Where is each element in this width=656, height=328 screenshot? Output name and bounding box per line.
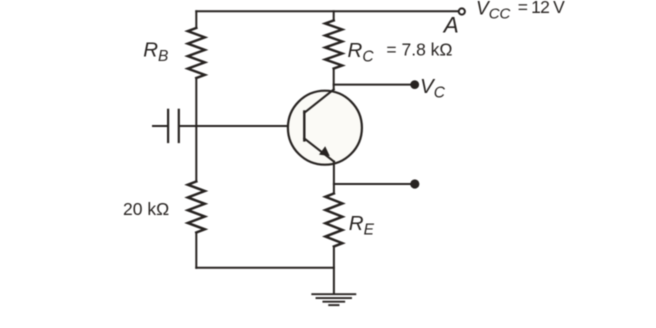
node VC terminal (dot) bbox=[410, 80, 419, 89]
wire bottom rail bbox=[196, 267, 334, 269]
wire top rail bbox=[196, 10, 457, 12]
wire RE lower bbox=[333, 247, 335, 294]
resistor RE bbox=[325, 194, 342, 247]
svg-text:VCC: VCC bbox=[476, 0, 511, 22]
wire emitter bbox=[333, 162, 335, 194]
ground bbox=[312, 294, 355, 305]
wire RB branch lower bbox=[195, 233, 197, 268]
wire RB branch middle bbox=[195, 78, 197, 182]
wire to VC terminal bbox=[334, 84, 411, 86]
svg-text:VC: VC bbox=[420, 75, 446, 102]
capacitor input stub wire bbox=[153, 125, 167, 127]
wire RB branch upper bbox=[195, 11, 197, 28]
svg-text:RB: RB bbox=[143, 39, 168, 65]
svg-text:20 kΩ: 20 kΩ bbox=[123, 199, 169, 219]
node emitter output terminal (dot) bbox=[410, 179, 419, 188]
resistor RC bbox=[325, 21, 342, 69]
svg-text:= 12 V: = 12 V bbox=[518, 0, 565, 17]
transistor Q1 bbox=[288, 90, 362, 165]
resistor RB bbox=[188, 28, 205, 78]
node A terminal (open circle) bbox=[459, 8, 465, 14]
svg-text:RE: RE bbox=[349, 212, 375, 238]
svg-text:RC: RC bbox=[348, 39, 375, 66]
wire collector bbox=[333, 69, 335, 90]
capacitor C1 bbox=[168, 110, 179, 142]
resistor 20 kOhm bbox=[188, 182, 205, 233]
wire RC branch upper bbox=[333, 11, 335, 20]
svg-text:= 7.8 kΩ: = 7.8 kΩ bbox=[386, 39, 452, 59]
svg-text:A: A bbox=[442, 13, 459, 38]
wire to emitter output terminal bbox=[334, 183, 410, 185]
wire base bbox=[180, 125, 304, 127]
